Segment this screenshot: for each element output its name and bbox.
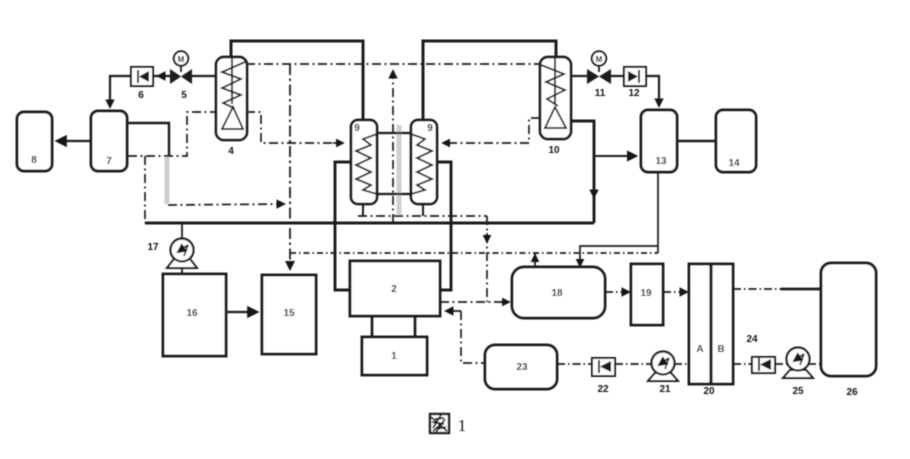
wire valve11 to valve12	[611, 75, 624, 77]
wire box13 bottom down x658	[657, 169, 659, 253]
pump 21	[648, 352, 678, 396]
arrow down on x594	[593, 188, 595, 197]
svg-text:10: 10	[548, 145, 560, 156]
wire vessel10 outlet down x594	[571, 121, 594, 223]
wire valve6 to box7 top	[110, 76, 131, 105]
svg-text:22: 22	[597, 384, 609, 395]
wire pump17 stub to y223	[181, 223, 183, 239]
svg-text:4: 4	[228, 146, 234, 157]
svg-text:6: 6	[138, 90, 144, 101]
svg-text:12: 12	[628, 88, 640, 99]
vessel 9 right	[411, 120, 437, 204]
vessel 10	[540, 57, 571, 156]
wire vessel9R shell to box2 right	[437, 162, 451, 290]
svg-text:M: M	[178, 55, 185, 64]
box 23	[485, 345, 557, 389]
svg-text:16: 16	[186, 308, 198, 319]
dashdot box23 feed into box2 right	[461, 311, 485, 363]
dashdot box7 right to vessel4 bottom entry	[128, 112, 216, 156]
svg-text:1: 1	[458, 416, 467, 435]
vessel 4	[216, 57, 247, 157]
box 7	[91, 111, 127, 171]
svg-text:14: 14	[728, 158, 740, 169]
valve 6	[131, 67, 153, 101]
wire box2 to box1 connectors	[371, 316, 374, 337]
dashdot x487 down to y302	[486, 216, 488, 302]
svg-text:5: 5	[181, 90, 187, 101]
wire vessel4 to valve5	[192, 75, 216, 77]
valve 12	[624, 67, 646, 99]
box 26	[821, 263, 876, 376]
wire valve5 to valve6	[153, 75, 170, 77]
svg-text:23: 23	[516, 362, 528, 373]
wire box7 to box8 arrow	[57, 140, 91, 142]
wire vessel10 to valve11	[571, 75, 587, 77]
svg-text:7: 7	[106, 156, 112, 167]
svg-text:20: 20	[703, 386, 715, 397]
svg-text:19: 19	[640, 288, 652, 299]
dashdot vessel10 left jog into vessel9R	[445, 118, 540, 143]
stub vessel9L bottom	[362, 204, 364, 216]
svg-text:26: 26	[846, 387, 858, 398]
box 19	[631, 264, 663, 325]
svg-text:9: 9	[354, 123, 360, 134]
wire long horizontal y223	[145, 222, 594, 225]
grey band left web	[167, 125, 399, 215]
valve 11 motorized	[587, 51, 611, 99]
wire box16 to box15 arrow	[226, 311, 257, 313]
box 15	[262, 275, 316, 354]
valve 24	[746, 334, 775, 373]
wire box13 to box14	[677, 140, 716, 142]
svg-text:B: B	[717, 344, 724, 355]
svg-text:M: M	[596, 55, 603, 64]
dashdot y205 to x290	[168, 204, 284, 205]
pump 25	[783, 348, 813, 398]
wire x594 branch into box13 left	[594, 155, 636, 157]
svg-text:15: 15	[283, 308, 295, 319]
box 13	[641, 110, 677, 172]
svg-text:2: 2	[391, 284, 397, 295]
wire pump17 to box16 top	[181, 266, 183, 274]
svg-text:A: A	[696, 344, 703, 355]
wire x535 box18 top up to y253	[534, 253, 536, 270]
box 14	[716, 110, 756, 172]
dashdot x392 vertical with up arrow	[392, 71, 394, 223]
adsorber 20	[689, 264, 733, 397]
box 16	[163, 274, 226, 356]
svg-text:11: 11	[595, 88, 606, 99]
dashdot y302 box2 right into box18 left	[440, 301, 507, 303]
dashdot y216 with stubs and x487 down	[358, 215, 487, 217]
wire y246 left to x580 into box18 top	[580, 246, 658, 264]
wire valve12 to box13 top	[646, 76, 659, 104]
dashdot box18 to box19	[605, 291, 629, 293]
svg-text:18: 18	[551, 288, 563, 299]
dashdot x145 down to y223	[144, 156, 146, 223]
dashdot comp20 right to solid into box26	[733, 288, 781, 290]
svg-text:9: 9	[427, 123, 433, 134]
svg-text:21: 21	[659, 384, 671, 395]
svg-text:13: 13	[655, 156, 667, 167]
box 2	[350, 261, 440, 316]
stub vessel9R bottom	[422, 204, 424, 216]
svg-text:8: 8	[31, 155, 37, 166]
wire vessel9 bottom connector	[377, 193, 411, 195]
svg-text:1: 1	[391, 351, 397, 362]
wire solid segment into box26 left	[781, 288, 821, 291]
dashdot box19 to comp20	[663, 291, 687, 293]
valve 5 motorized	[170, 51, 192, 101]
pump 17	[147, 239, 197, 269]
box 1	[362, 337, 427, 375]
vessel 9 left	[351, 120, 377, 204]
wire vessel9L shell to box2 left	[335, 162, 351, 290]
wire box7 right upper to corner	[128, 123, 169, 156]
wire top rail right: vessel9R top to vessel10 top	[423, 41, 556, 121]
svg-text:24: 24	[746, 334, 758, 345]
svg-text:17: 17	[147, 242, 159, 253]
box 8	[17, 112, 52, 171]
wire vessel9 top connector	[377, 132, 411, 134]
dashdot vessel4 right jog into vessel9L	[246, 112, 341, 143]
dashdot x290 vertical into box15 top	[289, 64, 291, 269]
dashdot bottom row y364	[557, 363, 592, 365]
box 18	[512, 267, 605, 318]
dashdot y253 long line	[290, 252, 658, 254]
svg-text:25: 25	[792, 386, 804, 397]
wire top rail left: vessel4 top to vessel9L top	[231, 41, 363, 121]
valve 22	[592, 358, 615, 395]
figure caption icon	[430, 414, 466, 435]
dashdot y64 vessel4 to vessel10	[246, 63, 540, 65]
